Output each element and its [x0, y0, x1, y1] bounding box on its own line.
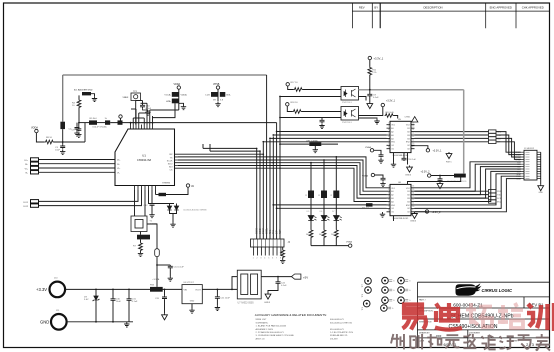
fuse F1 capsule [155, 249, 160, 257]
digital isolator U6 [390, 184, 411, 215]
wire bus to U6 lower feed 2 [277, 207, 387, 209]
capacitor C4 0.01uF [75, 126, 80, 130]
cirrus logic logo ellipse [456, 283, 482, 296]
wire node A to C5 [78, 123, 80, 128]
wire U3 cathode to bus [280, 96, 341, 98]
resistor R31 black body [321, 191, 327, 199]
U6 right pin stubs [411, 188, 415, 212]
svg-text:TP8: TP8 [362, 294, 364, 297]
svg-text:U7 NXE2-0505: U7 NXE2-0505 [238, 301, 255, 304]
wire U6 to J8 pin 2 [415, 194, 489, 196]
svg-text:9: 9 [412, 209, 413, 211]
svg-text:4: 4 [264, 258, 265, 260]
arrow ground C18 [437, 182, 443, 189]
junction U5 feed4 [262, 141, 264, 143]
U7 inner winding right [251, 274, 258, 295]
ground C8 [319, 123, 324, 128]
wire GND bus [67, 321, 133, 323]
junction U5 feed3 [269, 138, 271, 140]
svg-text:16: 16 [412, 122, 414, 124]
wire R18 to U4 [302, 111, 342, 113]
wire R30 to LED D5 [310, 198, 312, 216]
svg-text:+3.3V_2: +3.3V_2 [421, 170, 431, 173]
svg-text:8: 8 [280, 258, 281, 260]
wire U6 to J3 staircase 5 [415, 171, 522, 201]
svg-text:C6(L)F GNDAL: C6(L)F GNDAL [92, 126, 108, 129]
resistor R42 560 [334, 229, 338, 239]
header J3 box [524, 150, 537, 180]
arrow ground mid [446, 152, 452, 159]
terminal VPPB [216, 86, 219, 89]
capacitor C17 [381, 177, 386, 181]
svg-text:DESCRIPTION: DESCRIPTION [423, 5, 442, 9]
LED D6 [321, 216, 327, 221]
wire R20 stub [282, 247, 284, 249]
svg-text:RX1: RX1 [270, 229, 272, 234]
capacitor C22 [276, 281, 281, 285]
TP1 circle [134, 95, 138, 99]
wire DO2 from J4 up to U1 pin [39, 190, 142, 206]
net tag +5V [292, 274, 301, 279]
wire U1 pin24 up to net [130, 123, 132, 125]
wire U1 pin to C12 [151, 190, 153, 203]
test point TP1 VREF box [131, 93, 141, 101]
wire term to R11 [369, 60, 371, 67]
U6 left pin stubs [387, 188, 391, 212]
wire U6 to J3 staircase 8 [415, 179, 522, 212]
wire pin17 pin23 link [133, 117, 144, 119]
wire U5 to +3.3V_1 term [411, 146, 428, 149]
wire U1 right pin bus line 5 [178, 165, 277, 167]
wire R31 to LED D6 [323, 198, 325, 216]
svg-text:13: 13 [412, 196, 414, 198]
svg-text:+5V: +5V [303, 275, 308, 279]
wire net y122 long segment to bus [110, 122, 276, 124]
svg-text:CHS1: CHS1 [405, 117, 412, 119]
wire X2 gnd stub [314, 146, 316, 148]
svg-text:MOSI: MOSI [260, 228, 262, 234]
test point TP5 [382, 277, 389, 284]
wire bus vertical x280.0 [279, 97, 281, 239]
connector J4 2-pin header [31, 200, 39, 203]
arrow ground C20 [162, 313, 168, 320]
wire C20 down [164, 300, 166, 314]
terminal +3.3V_2 u6 [428, 174, 431, 177]
wire VCCA stack down to U1 pins [153, 103, 176, 117]
test point TP11 [398, 297, 405, 304]
svg-text:7: 7 [388, 206, 389, 208]
test point TP9 [398, 277, 405, 284]
capacitor C12 [150, 203, 155, 207]
ferrite bead FB4 [454, 174, 466, 178]
svg-text:0.1uF: 0.1uF [373, 97, 379, 99]
svg-text:DS-339: DS-339 [330, 338, 338, 340]
svg-text:DO2: DO2 [24, 206, 29, 208]
resistor R40 560 [309, 229, 313, 239]
wire U1 pin21 up [135, 109, 137, 125]
jumper J6 black body [211, 92, 218, 97]
wire C30 top [112, 289, 114, 297]
optocoupler U3 [341, 87, 359, 101]
svg-text:LDO: LDO [206, 95, 211, 97]
svg-text:TX1: TX1 [273, 229, 275, 234]
wire LED2 column top [323, 160, 325, 191]
wire bus to U6 staircase 4 [277, 166, 387, 199]
capacitor C30 10uF [111, 298, 116, 302]
wire bus to U5 SDI [277, 131, 387, 133]
wire cap C18 stub [439, 176, 441, 178]
svg-text:5R: 5R [213, 100, 216, 102]
wire U1 right pin bus line 1 [178, 153, 263, 155]
ferrite bead FB3 on +3.3V rail [150, 287, 163, 292]
ground below C3 [60, 149, 65, 154]
buffer symbol CHS1 [412, 117, 418, 123]
wire C30 bottom [112, 302, 114, 322]
wire bus vertical x270.0 [269, 140, 271, 240]
svg-text:AUXILIARY HARDWARE & RELATED D: AUXILIARY HARDWARE & RELATED DOCUMENTS: [255, 313, 327, 317]
wire R8 to node A [54, 141, 85, 143]
svg-text:ASSEMBLY DWG: ASSEMBLY DWG [256, 328, 274, 331]
wire LED to R40 [310, 221, 312, 230]
svg-text:R18 16: R18 16 [291, 102, 299, 104]
wire LED common bus [311, 245, 348, 247]
U1 top pin stubs [131, 125, 153, 130]
test point TP7 [382, 297, 389, 304]
wire R11 to junction [369, 76, 371, 90]
wire bus to U5 SDO [273, 134, 386, 136]
wire VI- from J2 to U1 [39, 171, 116, 173]
arrow ground J3 [538, 184, 544, 191]
svg-text:7: 7 [388, 143, 389, 145]
svg-text:FDBR AB BRC.PL: FDBR AB BRC.PL [330, 334, 349, 337]
svg-text:PART #: PART # [419, 299, 427, 302]
wire U1 pin to diodes [149, 190, 175, 204]
IC U1 CS5490 body with chamfered corner [115, 129, 175, 186]
svg-text:VDDA: VDDA [174, 83, 181, 86]
wire top analog net long run [63, 74, 267, 76]
U5 outside pin numbers right [412, 122, 414, 148]
svg-text:+3.3V_1: +3.3V_1 [386, 100, 396, 103]
ground VPPB stack [215, 102, 220, 107]
svg-text:0.1uF: 0.1uF [281, 285, 287, 287]
wire bus to U6 staircase 3 [273, 163, 386, 195]
capacitor C3 10uF [60, 145, 65, 149]
wire DI- from J2 to U1 [39, 163, 116, 165]
junction X2 left [279, 143, 281, 145]
resistor R4 10 [77, 99, 81, 109]
svg-text:12: 12 [412, 136, 414, 138]
wire VI+ from J2 to U1 [39, 167, 116, 169]
wire J7 area to J3 pin 4 [496, 142, 521, 160]
svg-text:6: 6 [272, 258, 273, 260]
ground VCCA stack [181, 105, 186, 110]
junction rail at C20 [164, 289, 166, 291]
svg-text:IRQ: IRQ [497, 201, 501, 203]
svg-text:ENGINEER: ENGINEER [470, 332, 481, 334]
svg-text:DI-: DI- [117, 164, 120, 166]
ferrite bead FB5 on U6 feed [366, 203, 373, 206]
svg-text:VREF: VREF [123, 97, 129, 99]
svg-text:PS2703-1: PS2703-1 [342, 102, 353, 104]
wire crystal right to fuse [147, 224, 157, 249]
svg-text:VSSA: VSSA [362, 175, 368, 178]
wire J7 area to J3 pin 1 [496, 132, 521, 153]
junction R11 net [369, 89, 371, 91]
svg-text:11: 11 [412, 139, 414, 141]
wire bus vertical x260.0 [259, 151, 261, 239]
svg-text:+3.3V: +3.3V [36, 287, 47, 292]
svg-text:DI-: DI- [25, 164, 28, 166]
wire net y122 left segment [79, 122, 89, 124]
svg-text:TP7: TP7 [362, 284, 364, 287]
ground below C4 [74, 131, 79, 136]
wire R40 to common [310, 238, 312, 246]
ground diodes [170, 222, 175, 227]
wire DI+ from J2 to U1 [39, 159, 116, 161]
wire U6 to J3 staircase 1 [415, 162, 522, 188]
test point TP10 [398, 287, 405, 294]
wire L2 to cap C3 [62, 129, 64, 145]
resistor R8 1k [45, 140, 55, 144]
diode pair common to ground [170, 210, 177, 214]
svg-text:CD0603-B00340 GRMB: CD0603-B00340 GRMB [183, 210, 207, 212]
ground GND bus [124, 322, 129, 327]
svg-text:5: 5 [388, 136, 389, 138]
svg-text:15: 15 [412, 189, 414, 191]
svg-text:RX: RX [169, 154, 173, 156]
wire LED to R41 [323, 221, 325, 230]
terminal VSSA U6 [371, 173, 374, 176]
wire R32 to LED D7 [335, 198, 337, 216]
wire J7 area to J3 pin 3 [496, 138, 521, 157]
wire FB1 left down to R4 [78, 95, 80, 99]
watermark big red character TUO faint [466, 303, 492, 327]
arrow ground GND3 under U7 [265, 293, 271, 300]
svg-text:+3.3V_1: +3.3V_1 [374, 57, 384, 61]
junction U7 in rail [231, 289, 233, 291]
ground C14 [168, 276, 173, 281]
wire VDDA stack down [178, 89, 180, 110]
junction out cap C22 [277, 276, 279, 278]
LED D5 [308, 216, 314, 221]
svg-text:16: 16 [412, 185, 414, 187]
svg-text:R12 440: R12 440 [386, 112, 395, 114]
svg-text:2: 2 [388, 126, 389, 128]
wire U7 out+ to +5V tag [261, 276, 291, 278]
svg-text:MISO: MISO [257, 228, 259, 234]
test point TP9 tick label [405, 280, 408, 282]
svg-text:R17 16: R17 16 [291, 82, 299, 84]
svg-text:+3.3VA: +3.3VA [152, 278, 160, 281]
LED D7 arrows [340, 217, 342, 221]
header J3 left pin stubs [521, 152, 524, 178]
terminal VDDA opto2 [286, 103, 289, 106]
junction LED2 tap [323, 159, 325, 161]
wire U5 to J7 pin 4 [415, 141, 489, 143]
diode D1 stub [169, 204, 171, 207]
svg-text:THERM: THERM [162, 183, 170, 185]
wire FB1 to ground [91, 94, 95, 97]
jumper J5 lower black body [172, 99, 179, 104]
optocoupler U4 [341, 107, 359, 121]
wire U5 to J7 pin 3 [415, 137, 489, 139]
svg-text:VPSB: VPSB [213, 83, 220, 86]
wire VDDD rail jog [150, 109, 179, 111]
svg-text:5.6V: 5.6V [84, 299, 89, 301]
svg-text:CIRRUS LOGIC: CIRRUS LOGIC [482, 288, 513, 293]
wire C4 stub [76, 123, 78, 127]
watermark big red character DI [435, 303, 462, 330]
wire U6 gnd stub [393, 216, 395, 221]
svg-text:VOUT: VOUT [195, 290, 201, 292]
svg-text:9: 9 [412, 146, 413, 148]
svg-text:610-00434-Z1: 610-00434-Z1 [330, 329, 345, 331]
svg-text:VI-: VI- [117, 172, 120, 174]
svg-text:1-1 BLOTR APPR .PLN: 1-1 BLOTR APPR .PLN [330, 331, 353, 334]
svg-text:1: 1 [253, 258, 254, 260]
wire R42 to common [335, 238, 337, 246]
svg-text:Si8442AB-B-IS1: Si8442AB-B-IS1 [393, 154, 410, 157]
svg-text:5: 5 [268, 258, 269, 260]
svg-text:U1: U1 [142, 154, 146, 158]
svg-text:6: 6 [388, 203, 389, 205]
svg-text:14: 14 [412, 192, 414, 194]
wire U6 to J3 staircase 6 [415, 174, 522, 205]
wire isolated supply vertical gray [463, 90, 465, 174]
wire VPPB down [217, 89, 219, 101]
wire TP1 to C10 [136, 100, 143, 102]
svg-text:3: 3 [388, 129, 389, 131]
svg-text:SCLK: SCLK [167, 160, 173, 162]
resistor R11 2.2k [368, 67, 372, 77]
wire U1 XIN to Y1 [134, 190, 136, 216]
svg-text:PS2703-1: PS2703-1 [342, 122, 353, 124]
svg-text:GND: GND [40, 320, 49, 325]
svg-text:REV: REV [359, 5, 365, 9]
wire U1 pin18 up [152, 116, 154, 125]
wire VDDA terminal to resistor R8 [36, 133, 44, 142]
wire bus to U5 SCLK [270, 137, 387, 139]
wire U6 to +3.3V_2 lower [415, 212, 428, 214]
wire U7 in+ stub [232, 277, 237, 290]
header J3 right pin stubs [537, 152, 541, 178]
watermark big red character YI [402, 305, 427, 330]
U5 left pin stubs [387, 125, 391, 149]
junction VDDA rail at x63 [62, 141, 64, 143]
title block grid [418, 282, 550, 347]
watermark subtitle gray characters row [391, 334, 550, 351]
svg-text:VDDA: VDDA [31, 126, 38, 129]
wire VSSA to C15 [374, 150, 381, 153]
svg-text:10uF: 10uF [116, 301, 122, 303]
wire bus vertical x273.3 [272, 136, 274, 239]
wire U6 to J8 pin 3 [415, 197, 489, 199]
wire stack to ground [179, 103, 184, 104]
wire R12 to U5 [394, 116, 398, 119]
header J6 box [251, 239, 285, 247]
wire bus to U6 staircase 5 [280, 168, 387, 201]
wire zener top [95, 289, 97, 296]
wire C12 to ground [151, 207, 153, 213]
svg-text:R5 3k4: R5 3k4 [90, 118, 98, 120]
test point TP2 [365, 278, 372, 285]
wire LED to R42 [335, 221, 337, 230]
wire U1 right pin bus line 3 [178, 159, 270, 161]
wire C20 stub [164, 289, 166, 295]
hook bus line2 [209, 144, 211, 151]
test point TP6 tick label [389, 289, 392, 291]
arrow ground GND3 under U6 [412, 212, 418, 219]
junction FB4 cap [439, 175, 441, 177]
junction zener bottom [95, 321, 97, 323]
capacitor C31 0.1uF [127, 298, 132, 302]
wire R17 to U3 [303, 89, 342, 91]
wire U6 to J3 staircase 3 [415, 167, 522, 195]
svg-text:13: 13 [412, 133, 414, 135]
svg-text:3. CDB5490U DATA SHEET CPS EVA: 3. CDB5490U DATA SHEET CPS EVAL [256, 334, 295, 337]
resistor R41 560 [322, 229, 326, 239]
capacitor C21 [215, 296, 220, 300]
banana jack +3.3V [50, 282, 66, 298]
svg-text:11: 11 [412, 203, 414, 205]
svg-text:SDO: SDO [168, 163, 173, 165]
wire opto2 term to R18 [287, 106, 292, 112]
terminal VSSA U5 [370, 149, 373, 152]
wire U3 collector long to iso GND [359, 89, 464, 91]
svg-text:1. BLANK PCB FAB 600-00434: 1. BLANK PCB FAB 600-00434 [256, 325, 287, 328]
junction LED3 tap [335, 156, 337, 158]
wire junction to C9 [369, 90, 371, 93]
svg-text:VCCA: VCCA [164, 94, 171, 97]
ground T near U5 top [374, 119, 379, 124]
wire opto1 term to R17 [288, 86, 294, 90]
watermark big red character XUN [527, 303, 554, 331]
wire +3.3V_2 to FB4 [431, 175, 454, 177]
test point TP8 [381, 305, 388, 312]
wire VSSA2 to C17 [375, 175, 383, 177]
junction U6 feed1 [272, 204, 274, 206]
connector stack J8 boxes [489, 190, 497, 193]
LED D7 [334, 216, 340, 221]
test point TP4 [363, 300, 370, 307]
svg-text:C14 0.1uF: C14 0.1uF [174, 267, 185, 269]
svg-text:BY: BY [374, 5, 378, 9]
svg-text:0.1uF: 0.1uF [132, 301, 138, 303]
svg-text:RST1: RST1 [446, 162, 452, 164]
svg-text:OPT 3.3TAL: OPT 3.3TAL [306, 139, 319, 142]
svg-text:8: 8 [388, 146, 389, 148]
wire U1 pin to FB2 [155, 190, 157, 195]
digital isolator U5 [390, 121, 411, 152]
svg-text:SCLK: SCLK [263, 228, 265, 234]
wire U1 pin17 up [143, 118, 145, 125]
svg-text:SDI: SDI [169, 166, 173, 168]
wire U5 gnd stub [393, 153, 395, 162]
resistor R18 [293, 110, 303, 114]
wire X2 right [321, 143, 338, 145]
svg-text:GND3: GND3 [405, 175, 412, 177]
svg-text:4: 4 [388, 196, 389, 198]
wire bus vertical x256.7 [256, 148, 258, 239]
ground below C10 [145, 110, 150, 115]
TP column rotated labels [362, 284, 364, 310]
wire FB4 down to U6 vdd2 [408, 178, 461, 185]
terminal +3.3V_1 mid [426, 149, 429, 152]
banana jack GND [51, 314, 67, 330]
regulator U8 box [182, 285, 202, 304]
LED D6 arrows [327, 217, 329, 221]
connector stack J7 boxes [489, 130, 497, 133]
